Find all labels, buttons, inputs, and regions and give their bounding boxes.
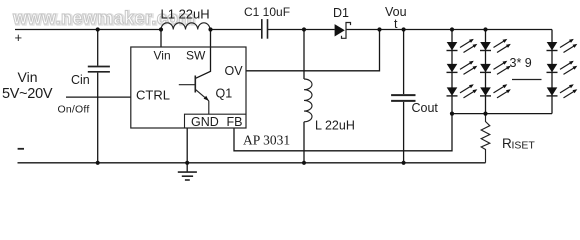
svg-text:ISET: ISET [512,139,536,151]
wire Cin branch upper [97,30,99,66]
ellipsis dash under 3*9 [512,79,542,81]
wire LED cathode bus [452,113,552,115]
wire GND pin drop [186,128,188,172]
wire L branch upper [303,30,305,80]
svg-text:SW: SW [186,49,206,63]
watermark www.newmaker.com [12,8,196,29]
transistor Q1 (NPN) [179,76,209,115]
op-amp/regulator U1 AP3031 box [131,47,246,128]
U1 inner GND/FB divider [185,114,247,128]
wire L branch lower [303,122,305,163]
junction GND pin bottom [185,161,189,165]
junction L1 right / SW pin [208,27,212,31]
wire top rail C1 to D1 anode [268,29,335,31]
LED string3 row2 [547,61,578,75]
diode D1 (Schottky) [335,23,351,39]
junction L1 left / Vin pin [159,27,163,31]
wire CTRL input [66,96,131,98]
wire FB to LED cathode bus [234,114,452,151]
LED string2 row1 [480,39,511,53]
svg-text:Q1: Q1 [216,87,233,101]
LED string1 row1 [447,39,478,53]
ground symbol [178,172,197,180]
junction Cin bottom [96,161,100,165]
terminal - [18,148,24,150]
LED string 1 [447,39,478,98]
svg-text:AP 3031: AP 3031 [243,133,290,148]
svg-text:3* 9: 3* 9 [510,56,532,70]
svg-text:Vin: Vin [154,49,171,63]
svg-text:GND: GND [191,115,219,129]
svg-text:Cin: Cin [71,73,90,87]
svg-text:5V~20V: 5V~20V [2,86,53,102]
svg-text:L 22uH: L 22uH [315,119,355,133]
svg-text:OV: OV [225,64,244,78]
LED string3 row3 [547,84,578,98]
junction LED string1 cathode / FB [450,112,454,116]
junction Cin top [96,27,100,31]
wire LED string 2 backbone [485,30,487,114]
wire top rail D1 cathode to LED bus end [346,29,552,31]
junction Cout bottom [402,161,406,165]
capacitor Cout [391,95,415,101]
svg-text:+: + [15,30,23,45]
LED string1 row2 [447,61,478,75]
resistor RISET [481,114,490,163]
junction Vout-Cout [402,27,406,31]
wire SW pin drop to Q1 collector [196,30,211,79]
svg-text:CTRL: CTRL [136,88,170,103]
junction LED string1 anode [450,27,454,31]
svg-text:D1: D1 [333,6,349,20]
wire Cin branch lower [97,73,99,163]
wire OV to Vout node [246,30,380,71]
LED string2 row3 [480,84,511,98]
LED string2 row2 [480,61,511,75]
LED string3 row1 [547,39,578,53]
capacitor Cin [88,67,110,72]
wire LED string 1 backbone [451,30,453,114]
inductor L 22uH (output branch, vertical) [304,79,312,122]
LED string 2 [480,39,511,98]
wire Cout branch upper [403,30,405,95]
svg-text:On/Off: On/Off [58,104,90,116]
svg-text:L1 22uH: L1 22uH [161,7,210,22]
inductor L1 22uH (series, top rail) [161,23,210,30]
capacitor C1 (series, top rail) [262,19,268,39]
svg-text:C1 10uF: C1 10uF [244,5,290,19]
junction Vout-OV [377,27,381,31]
wire Cout branch lower [403,102,405,163]
LED string1 row3 [447,84,478,98]
junction C1-L node [302,27,306,31]
svg-text:R: R [502,136,512,151]
junction L bottom [302,161,306,165]
wire top rail SW-dot to C1 [211,29,262,31]
wire LED string 3 backbone [551,30,553,114]
junction LED string2 anode [483,27,487,31]
LED string 3 [547,39,578,98]
wire top rail left (+ input to C1) [15,29,161,31]
label RISET [502,136,535,152]
node Vout label [385,5,407,31]
svg-text:FB: FB [227,115,243,129]
wire bottom ground rail [18,162,486,164]
svg-text:Vin: Vin [18,69,38,85]
svg-text:t: t [394,17,398,31]
junction LED string2 cathode / RISET [483,112,487,116]
wire Vin pin drop [160,30,162,48]
svg-text:Cout: Cout [412,101,439,115]
